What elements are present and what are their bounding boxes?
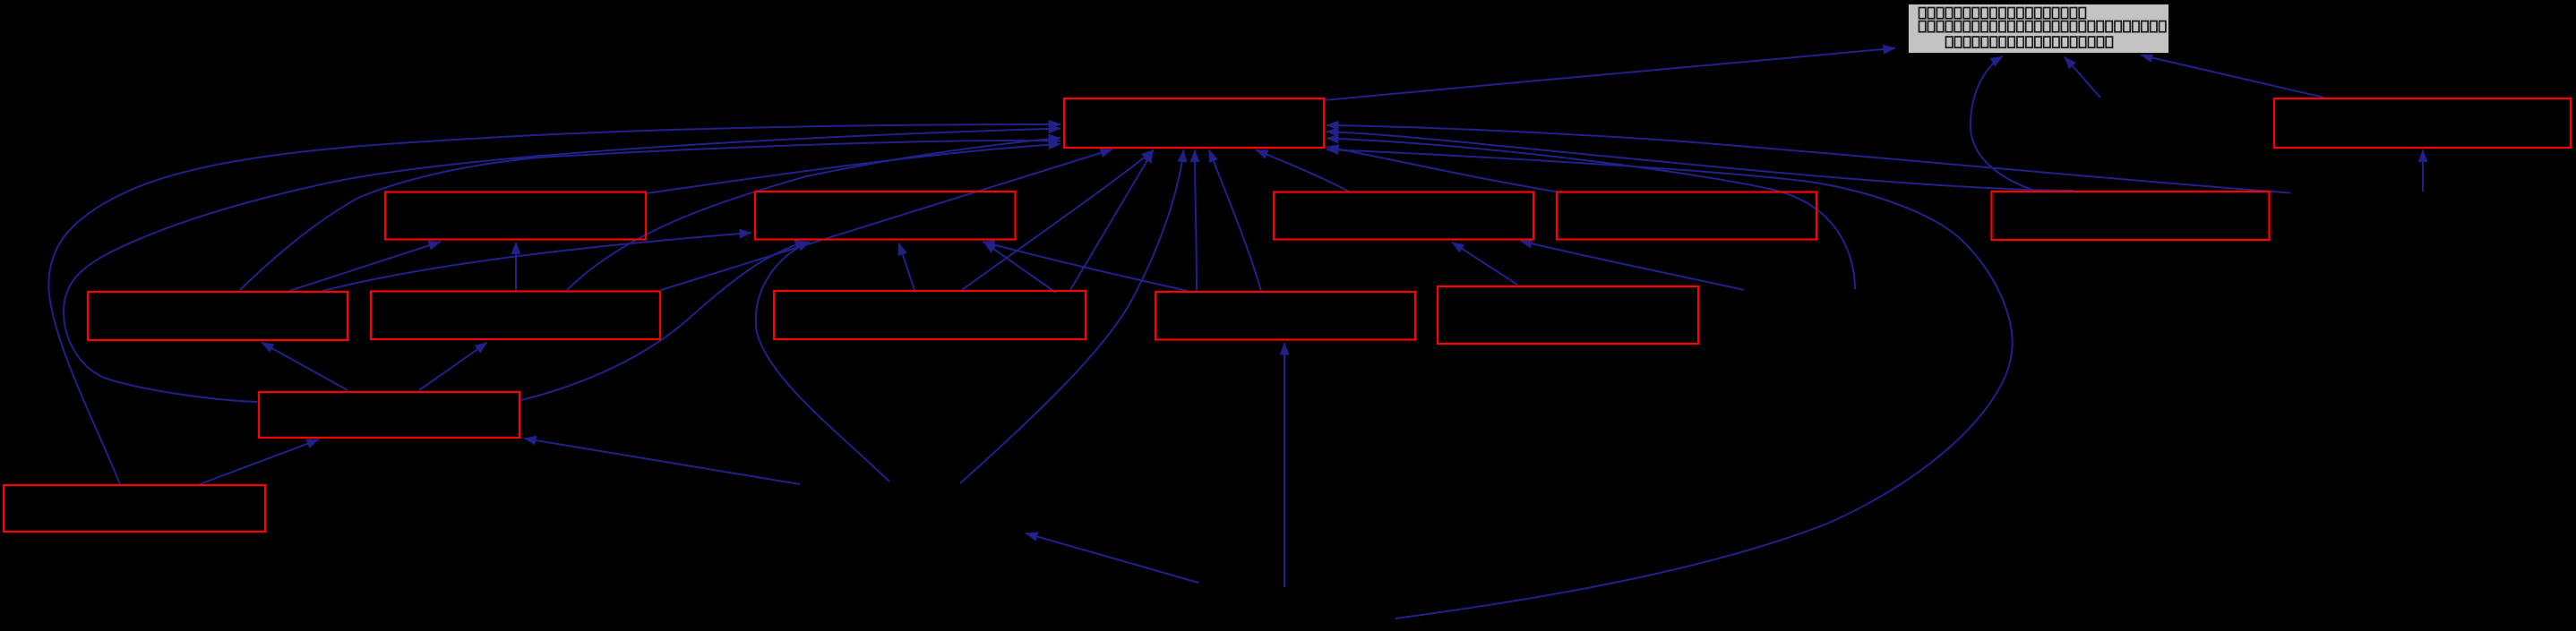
- node I row5: [4, 485, 265, 532]
- edge P2(hidden) to F4: [1284, 343, 1285, 587]
- edge F3 to B: [899, 243, 916, 294]
- edge A to C0: [647, 144, 1060, 193]
- edge F1 to B: [322, 233, 751, 291]
- edge F2 to C0 via left edge: [567, 138, 1060, 290]
- node F4 row3-4: [1155, 292, 1415, 340]
- edge R0 to G: [2141, 55, 2324, 98]
- edge F2 to C0 via bottom corner: [661, 149, 1112, 290]
- edge P1(hidden) to B: [756, 242, 889, 482]
- edge F4 to C0 slant: [1209, 150, 1261, 292]
- edge F3 to C0: [962, 150, 1154, 291]
- edge F4 to B: [983, 242, 1188, 291]
- node F3 row3-3: [774, 291, 1086, 339]
- edge E to G, S-curve: [1971, 56, 2032, 190]
- edge F1 to A: [289, 242, 441, 291]
- edge C0 to G: [1324, 48, 1895, 100]
- edge P1(hidden) to H(row4): [524, 439, 800, 484]
- edge F3 to C0 second: [1070, 150, 1154, 290]
- node F1 row3-1: [88, 292, 348, 340]
- node C0 central header: [1064, 98, 1324, 148]
- edge P2(hidden) to P1(hidden): [1026, 533, 1198, 583]
- edge P4(hidden) to G: [2065, 57, 2100, 98]
- edge H(row4) to C0, inner left arc: [64, 129, 1060, 403]
- node R0 far right: [2274, 98, 2571, 148]
- node B row2-2: [755, 192, 1016, 240]
- edge E to C0: [1327, 132, 2074, 191]
- edge P2(hidden) to C0, big right arc: [1327, 149, 2013, 618]
- node C row2-3: [1274, 192, 1533, 240]
- edge D to C0: [1327, 147, 1556, 192]
- edge F3 to B second: [984, 243, 1057, 294]
- edge P3(hidden) to C0: [1327, 125, 2290, 193]
- edge P1(hidden) to C0: [960, 150, 1184, 484]
- edge H(row4) to F1: [262, 343, 348, 390]
- edge H(row4) to B: [521, 242, 807, 400]
- edge F4 to C0 vertical: [1195, 150, 1197, 292]
- node G gray truncated box: [1908, 4, 2169, 54]
- edge P5(hidden) to C: [1520, 241, 1744, 290]
- node F5 row3-5 (two-line): [1438, 286, 1698, 344]
- node A row2-1: [385, 192, 646, 240]
- edge C to C0: [1256, 150, 1349, 192]
- edge H(row4) to F2: [419, 343, 487, 390]
- edge P5b(hidden) to C0: [1327, 139, 1855, 290]
- tofu row 2: [1919, 21, 1926, 32]
- edge F2 to A: [515, 243, 517, 291]
- edge F1 to C0: [240, 141, 1060, 290]
- edge P3(hidden) to R0: [2422, 150, 2424, 192]
- edge I(row5) to C0, big left arc: [48, 124, 1060, 484]
- tofu row 3: [1946, 37, 1953, 47]
- node E row2-5: [1992, 192, 2270, 240]
- node F2 row3-2: [371, 292, 660, 340]
- edge I(row5) to H(row4): [200, 439, 319, 484]
- tofu row 1: [1919, 8, 1926, 19]
- node H row4: [259, 392, 519, 438]
- node D row2-4: [1557, 192, 1816, 240]
- edge F5 to C short: [1452, 243, 1517, 286]
